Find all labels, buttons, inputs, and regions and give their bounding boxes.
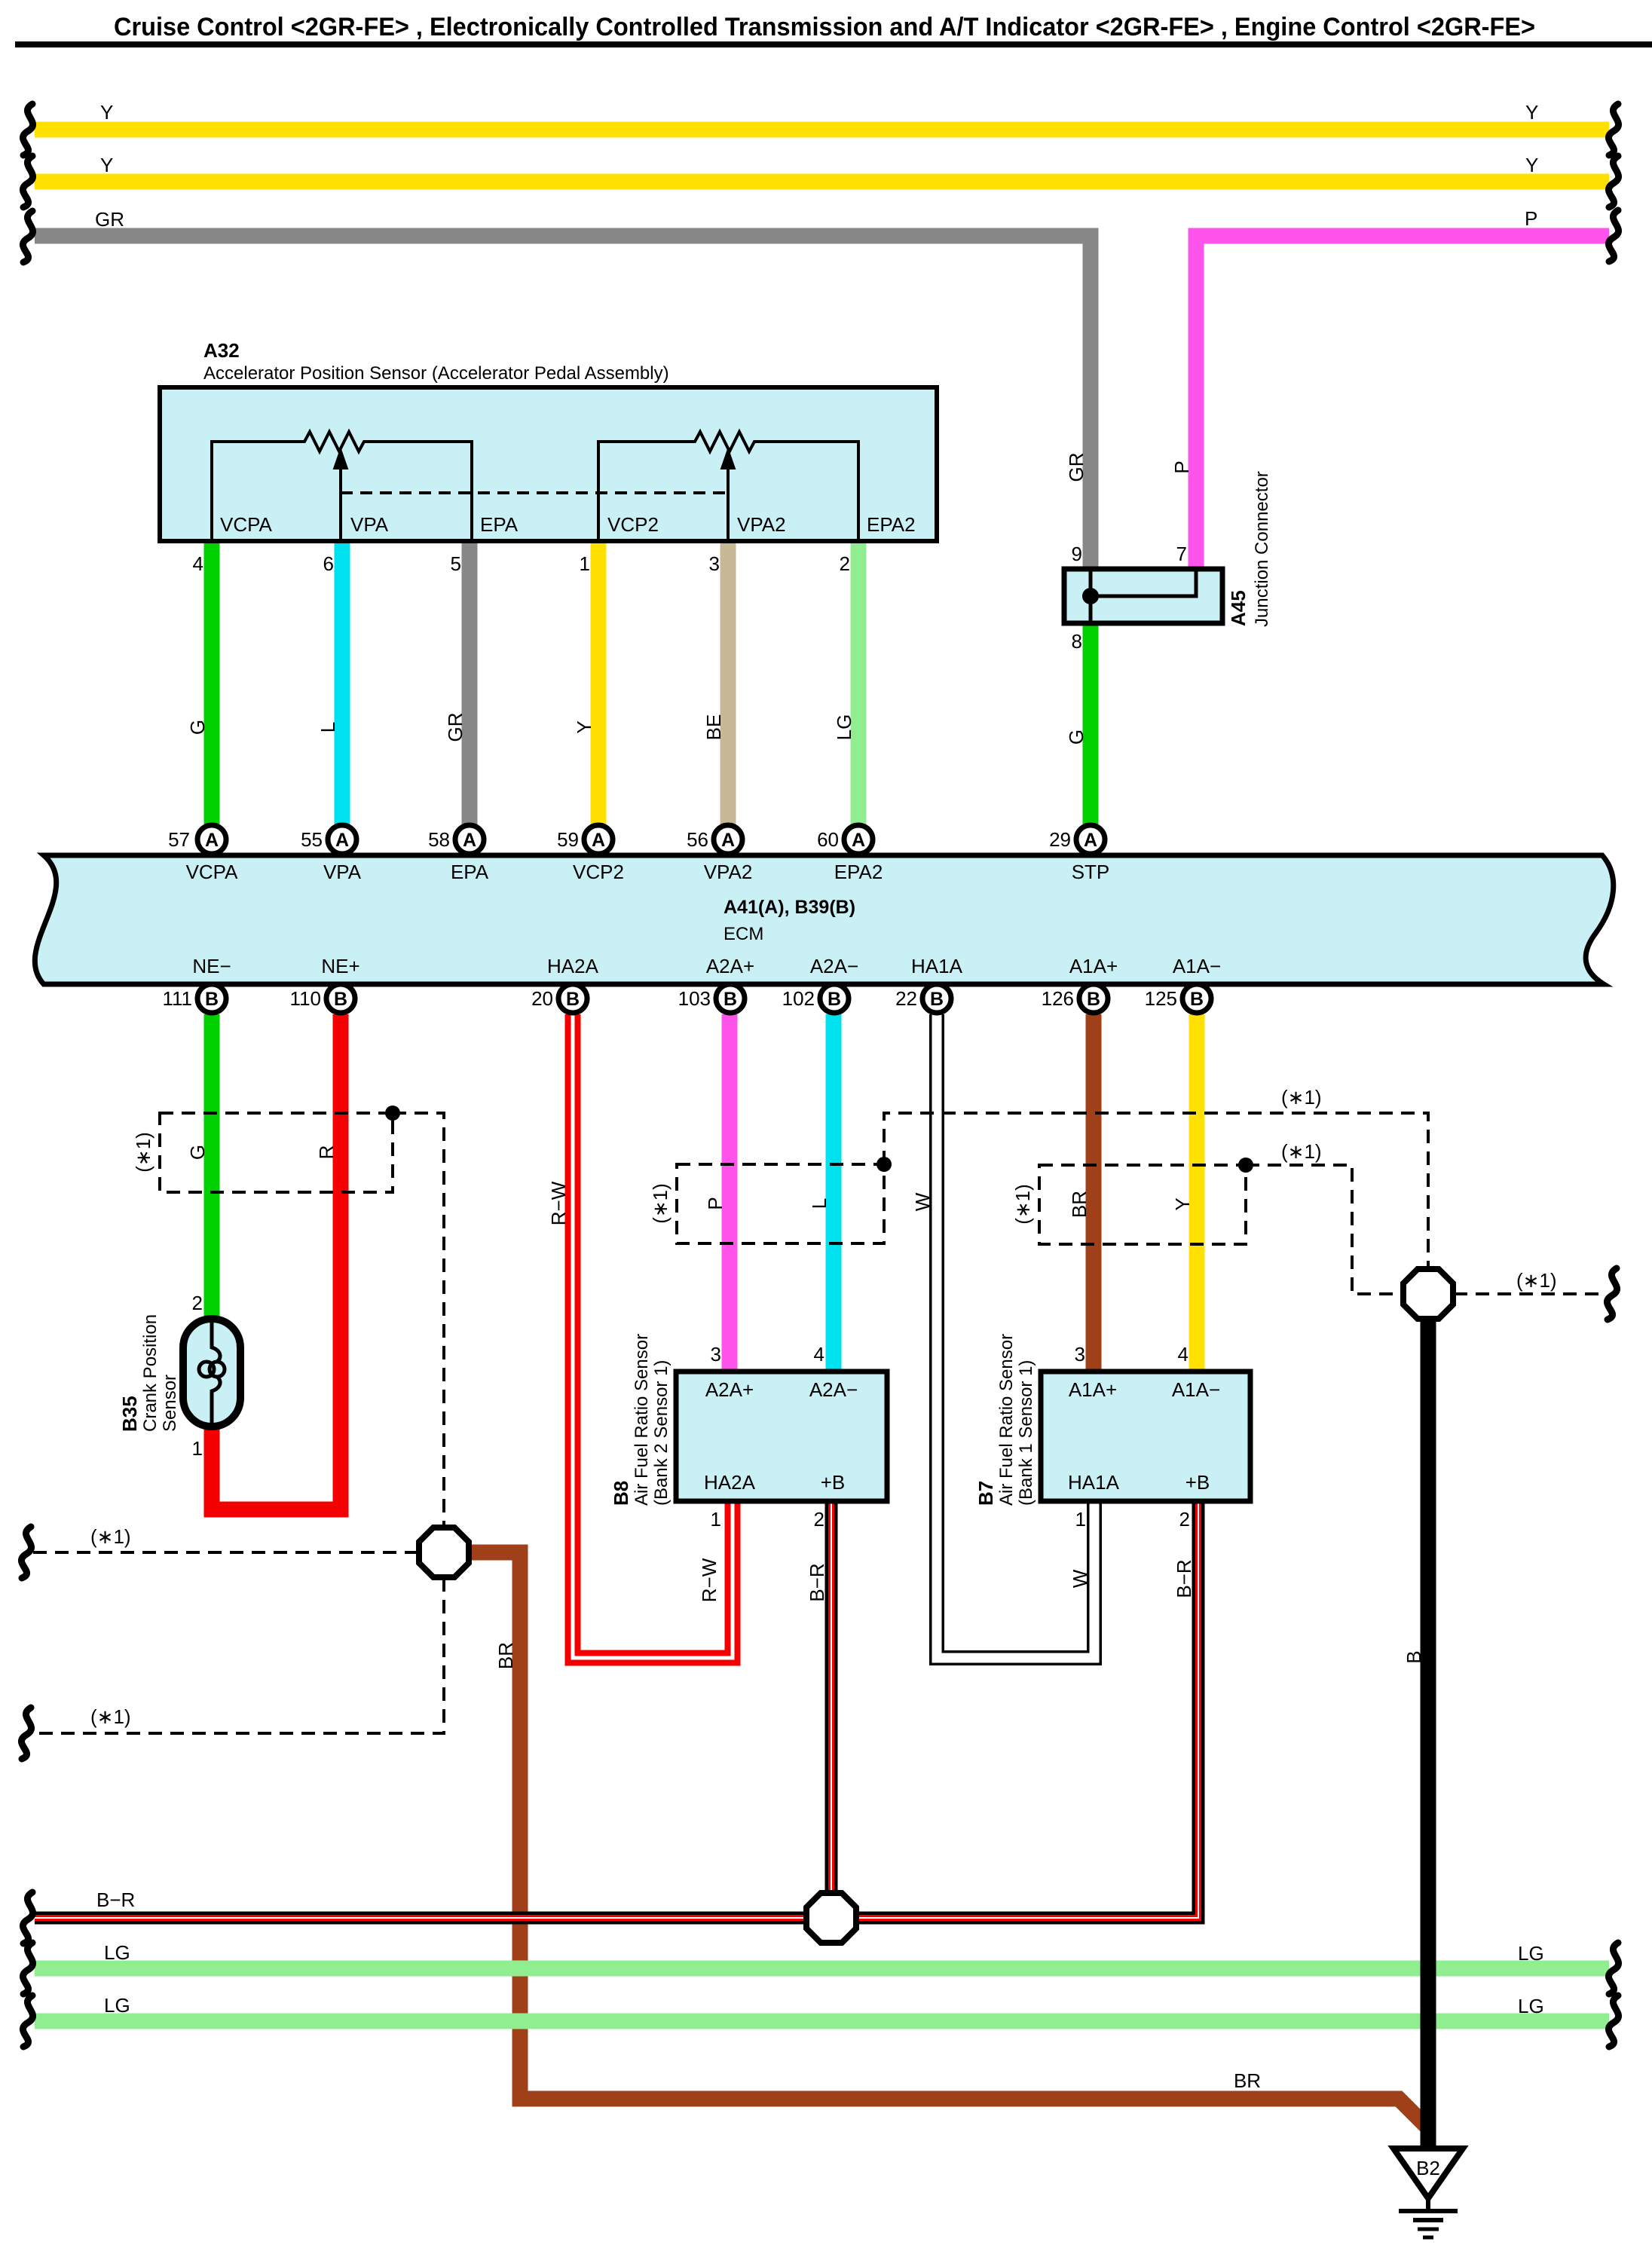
- svg-text:4: 4: [814, 1343, 824, 1366]
- svg-text:Air Fuel Ratio Sensor: Air Fuel Ratio Sensor: [996, 1334, 1017, 1506]
- svg-text:STP: STP: [1072, 861, 1110, 883]
- svg-text:B: B: [566, 989, 580, 1010]
- svg-text:Y: Y: [1525, 154, 1538, 176]
- svg-text:2: 2: [840, 552, 850, 575]
- svg-text:P: P: [1525, 207, 1537, 230]
- svg-text:Y: Y: [1171, 1197, 1194, 1210]
- svg-text:B−R: B−R: [96, 1889, 135, 1911]
- svg-text:Y: Y: [573, 720, 595, 733]
- svg-text:58: 58: [428, 828, 450, 851]
- svg-text:R−W: R−W: [698, 1558, 720, 1602]
- svg-text:(∗1): (∗1): [90, 1525, 131, 1548]
- svg-text:7: 7: [1176, 543, 1187, 565]
- svg-text:(∗1): (∗1): [90, 1705, 131, 1728]
- svg-text:A: A: [463, 830, 476, 851]
- svg-text:2: 2: [814, 1508, 824, 1531]
- svg-text:56: 56: [687, 828, 708, 851]
- svg-text:9: 9: [1072, 543, 1082, 565]
- svg-text:A1A−: A1A−: [1173, 955, 1221, 977]
- svg-text:GR: GR: [444, 713, 467, 742]
- svg-text:Air Fuel Ratio Sensor: Air Fuel Ratio Sensor: [632, 1334, 652, 1506]
- svg-text:R: R: [315, 1145, 338, 1160]
- svg-text:LG: LG: [1518, 1995, 1544, 2017]
- svg-text:Accelerator Position Sensor (A: Accelerator Position Sensor (Accelerator…: [203, 363, 669, 384]
- svg-text:HA1A: HA1A: [911, 955, 963, 977]
- svg-text:A1A+: A1A+: [1069, 1378, 1117, 1401]
- svg-text:LG: LG: [833, 714, 855, 741]
- svg-text:Crank Position: Crank Position: [140, 1314, 161, 1432]
- svg-text:B7: B7: [974, 1481, 997, 1506]
- svg-text:B: B: [828, 989, 841, 1010]
- svg-text:29: 29: [1049, 828, 1071, 851]
- svg-text:(Bank 1 Sensor 1): (Bank 1 Sensor 1): [1016, 1360, 1036, 1506]
- svg-text:B: B: [930, 989, 944, 1010]
- svg-text:Junction Connector: Junction Connector: [1252, 471, 1272, 627]
- svg-text:A32: A32: [203, 339, 240, 362]
- svg-text:Cruise Control <2GR-FE> , Elec: Cruise Control <2GR-FE> , Electronically…: [114, 13, 1535, 41]
- svg-text:B: B: [334, 989, 347, 1010]
- svg-text:3: 3: [709, 552, 720, 575]
- svg-text:VPA: VPA: [323, 861, 362, 883]
- svg-text:55: 55: [301, 828, 323, 851]
- svg-text:2: 2: [192, 1292, 203, 1314]
- svg-text:A41(A), B39(B): A41(A), B39(B): [724, 897, 855, 918]
- svg-text:BR: BR: [1068, 1191, 1091, 1218]
- svg-text:Y: Y: [100, 101, 113, 124]
- svg-text:Y: Y: [100, 154, 113, 176]
- svg-text:L: L: [808, 1198, 831, 1209]
- svg-text:A: A: [1084, 830, 1097, 851]
- svg-text:(∗1): (∗1): [1281, 1086, 1322, 1109]
- svg-text:HA1A: HA1A: [1068, 1471, 1120, 1494]
- svg-text:GR: GR: [1065, 453, 1088, 482]
- svg-text:LG: LG: [104, 1941, 130, 1964]
- svg-text:3: 3: [711, 1343, 721, 1366]
- svg-text:L: L: [317, 722, 339, 732]
- svg-text:(∗1): (∗1): [649, 1183, 672, 1224]
- svg-text:22: 22: [895, 987, 917, 1010]
- svg-text:B35: B35: [118, 1396, 141, 1432]
- svg-text:A2A+: A2A+: [705, 1378, 754, 1401]
- svg-text:4: 4: [193, 552, 203, 575]
- svg-text:B: B: [724, 989, 737, 1010]
- svg-text:ECM: ECM: [724, 924, 763, 944]
- svg-text:B−R: B−R: [1173, 1559, 1195, 1598]
- svg-text:5: 5: [451, 552, 461, 575]
- svg-text:G: G: [186, 1145, 209, 1160]
- svg-text:(∗1): (∗1): [132, 1132, 154, 1173]
- svg-text:B: B: [1403, 1650, 1425, 1663]
- svg-text:B: B: [1190, 989, 1204, 1010]
- svg-text:LG: LG: [1518, 1942, 1544, 1965]
- svg-text:Sensor: Sensor: [160, 1375, 180, 1432]
- svg-text:VCP2: VCP2: [607, 513, 659, 536]
- svg-text:G: G: [186, 720, 209, 735]
- svg-text:GR: GR: [95, 208, 124, 231]
- svg-text:P: P: [1170, 460, 1193, 473]
- svg-text:103: 103: [678, 987, 711, 1010]
- svg-text:G: G: [1065, 729, 1088, 745]
- svg-text:20: 20: [531, 987, 553, 1010]
- svg-text:6: 6: [323, 552, 334, 575]
- svg-text:A: A: [335, 830, 349, 851]
- svg-text:59: 59: [557, 828, 579, 851]
- svg-text:HA2A: HA2A: [547, 955, 599, 977]
- svg-text:8: 8: [1072, 630, 1082, 653]
- svg-text:A1A−: A1A−: [1172, 1378, 1220, 1401]
- svg-text:A: A: [721, 830, 735, 851]
- svg-text:VCPA: VCPA: [186, 861, 239, 883]
- svg-text:A: A: [205, 830, 219, 851]
- svg-text:126: 126: [1042, 987, 1074, 1010]
- svg-text:1: 1: [580, 552, 590, 575]
- svg-text:BR: BR: [1234, 2069, 1261, 2092]
- svg-text:EPA2: EPA2: [834, 861, 883, 883]
- svg-text:VPA2: VPA2: [737, 513, 786, 536]
- svg-text:B: B: [205, 989, 219, 1010]
- svg-text:111: 111: [162, 987, 192, 1010]
- svg-text:B−R: B−R: [806, 1563, 828, 1601]
- svg-text:(∗1): (∗1): [1011, 1184, 1034, 1225]
- svg-text:W: W: [911, 1192, 934, 1211]
- svg-text:(∗1): (∗1): [1281, 1140, 1322, 1163]
- svg-text:60: 60: [817, 828, 839, 851]
- svg-text:EPA: EPA: [480, 513, 519, 536]
- svg-text:P: P: [704, 1197, 727, 1210]
- svg-text:1: 1: [711, 1508, 721, 1531]
- svg-text:NE+: NE+: [321, 955, 359, 977]
- svg-text:A2A−: A2A−: [810, 955, 858, 977]
- svg-text:W: W: [1069, 1569, 1091, 1588]
- svg-text:(Bank 2 Sensor 1): (Bank 2 Sensor 1): [651, 1360, 672, 1506]
- svg-text:+B: +B: [821, 1471, 846, 1494]
- svg-text:A1A+: A1A+: [1069, 955, 1118, 977]
- svg-text:VPA: VPA: [350, 513, 389, 536]
- svg-text:2: 2: [1179, 1508, 1190, 1531]
- svg-text:EPA: EPA: [451, 861, 489, 883]
- svg-text:NE−: NE−: [192, 955, 231, 977]
- svg-text:+B: +B: [1185, 1471, 1210, 1494]
- svg-text:Y: Y: [1525, 101, 1538, 124]
- svg-text:(∗1): (∗1): [1516, 1269, 1557, 1292]
- svg-text:110: 110: [290, 987, 321, 1010]
- svg-text:B8: B8: [610, 1481, 632, 1506]
- svg-text:1: 1: [1075, 1508, 1086, 1531]
- svg-text:EPA2: EPA2: [867, 513, 916, 536]
- svg-text:102: 102: [782, 987, 815, 1010]
- svg-text:BE: BE: [702, 714, 725, 741]
- svg-text:A: A: [852, 830, 865, 851]
- svg-text:B: B: [1087, 989, 1100, 1010]
- svg-text:3: 3: [1075, 1343, 1085, 1366]
- svg-text:57: 57: [168, 828, 190, 851]
- svg-text:B2: B2: [1416, 2157, 1440, 2179]
- svg-text:125: 125: [1145, 987, 1177, 1010]
- svg-text:VCPA: VCPA: [220, 513, 273, 536]
- svg-text:HA2A: HA2A: [704, 1471, 756, 1494]
- svg-text:A2A+: A2A+: [706, 955, 754, 977]
- svg-text:A45: A45: [1227, 590, 1250, 626]
- svg-text:A2A−: A2A−: [809, 1378, 858, 1401]
- svg-text:VCP2: VCP2: [573, 861, 624, 883]
- svg-text:4: 4: [1178, 1343, 1189, 1366]
- svg-text:VPA2: VPA2: [704, 861, 753, 883]
- svg-text:LG: LG: [104, 1994, 130, 2017]
- svg-text:R−W: R−W: [547, 1181, 570, 1225]
- svg-text:1: 1: [192, 1437, 203, 1460]
- svg-text:BR: BR: [494, 1642, 517, 1669]
- svg-text:A: A: [592, 830, 605, 851]
